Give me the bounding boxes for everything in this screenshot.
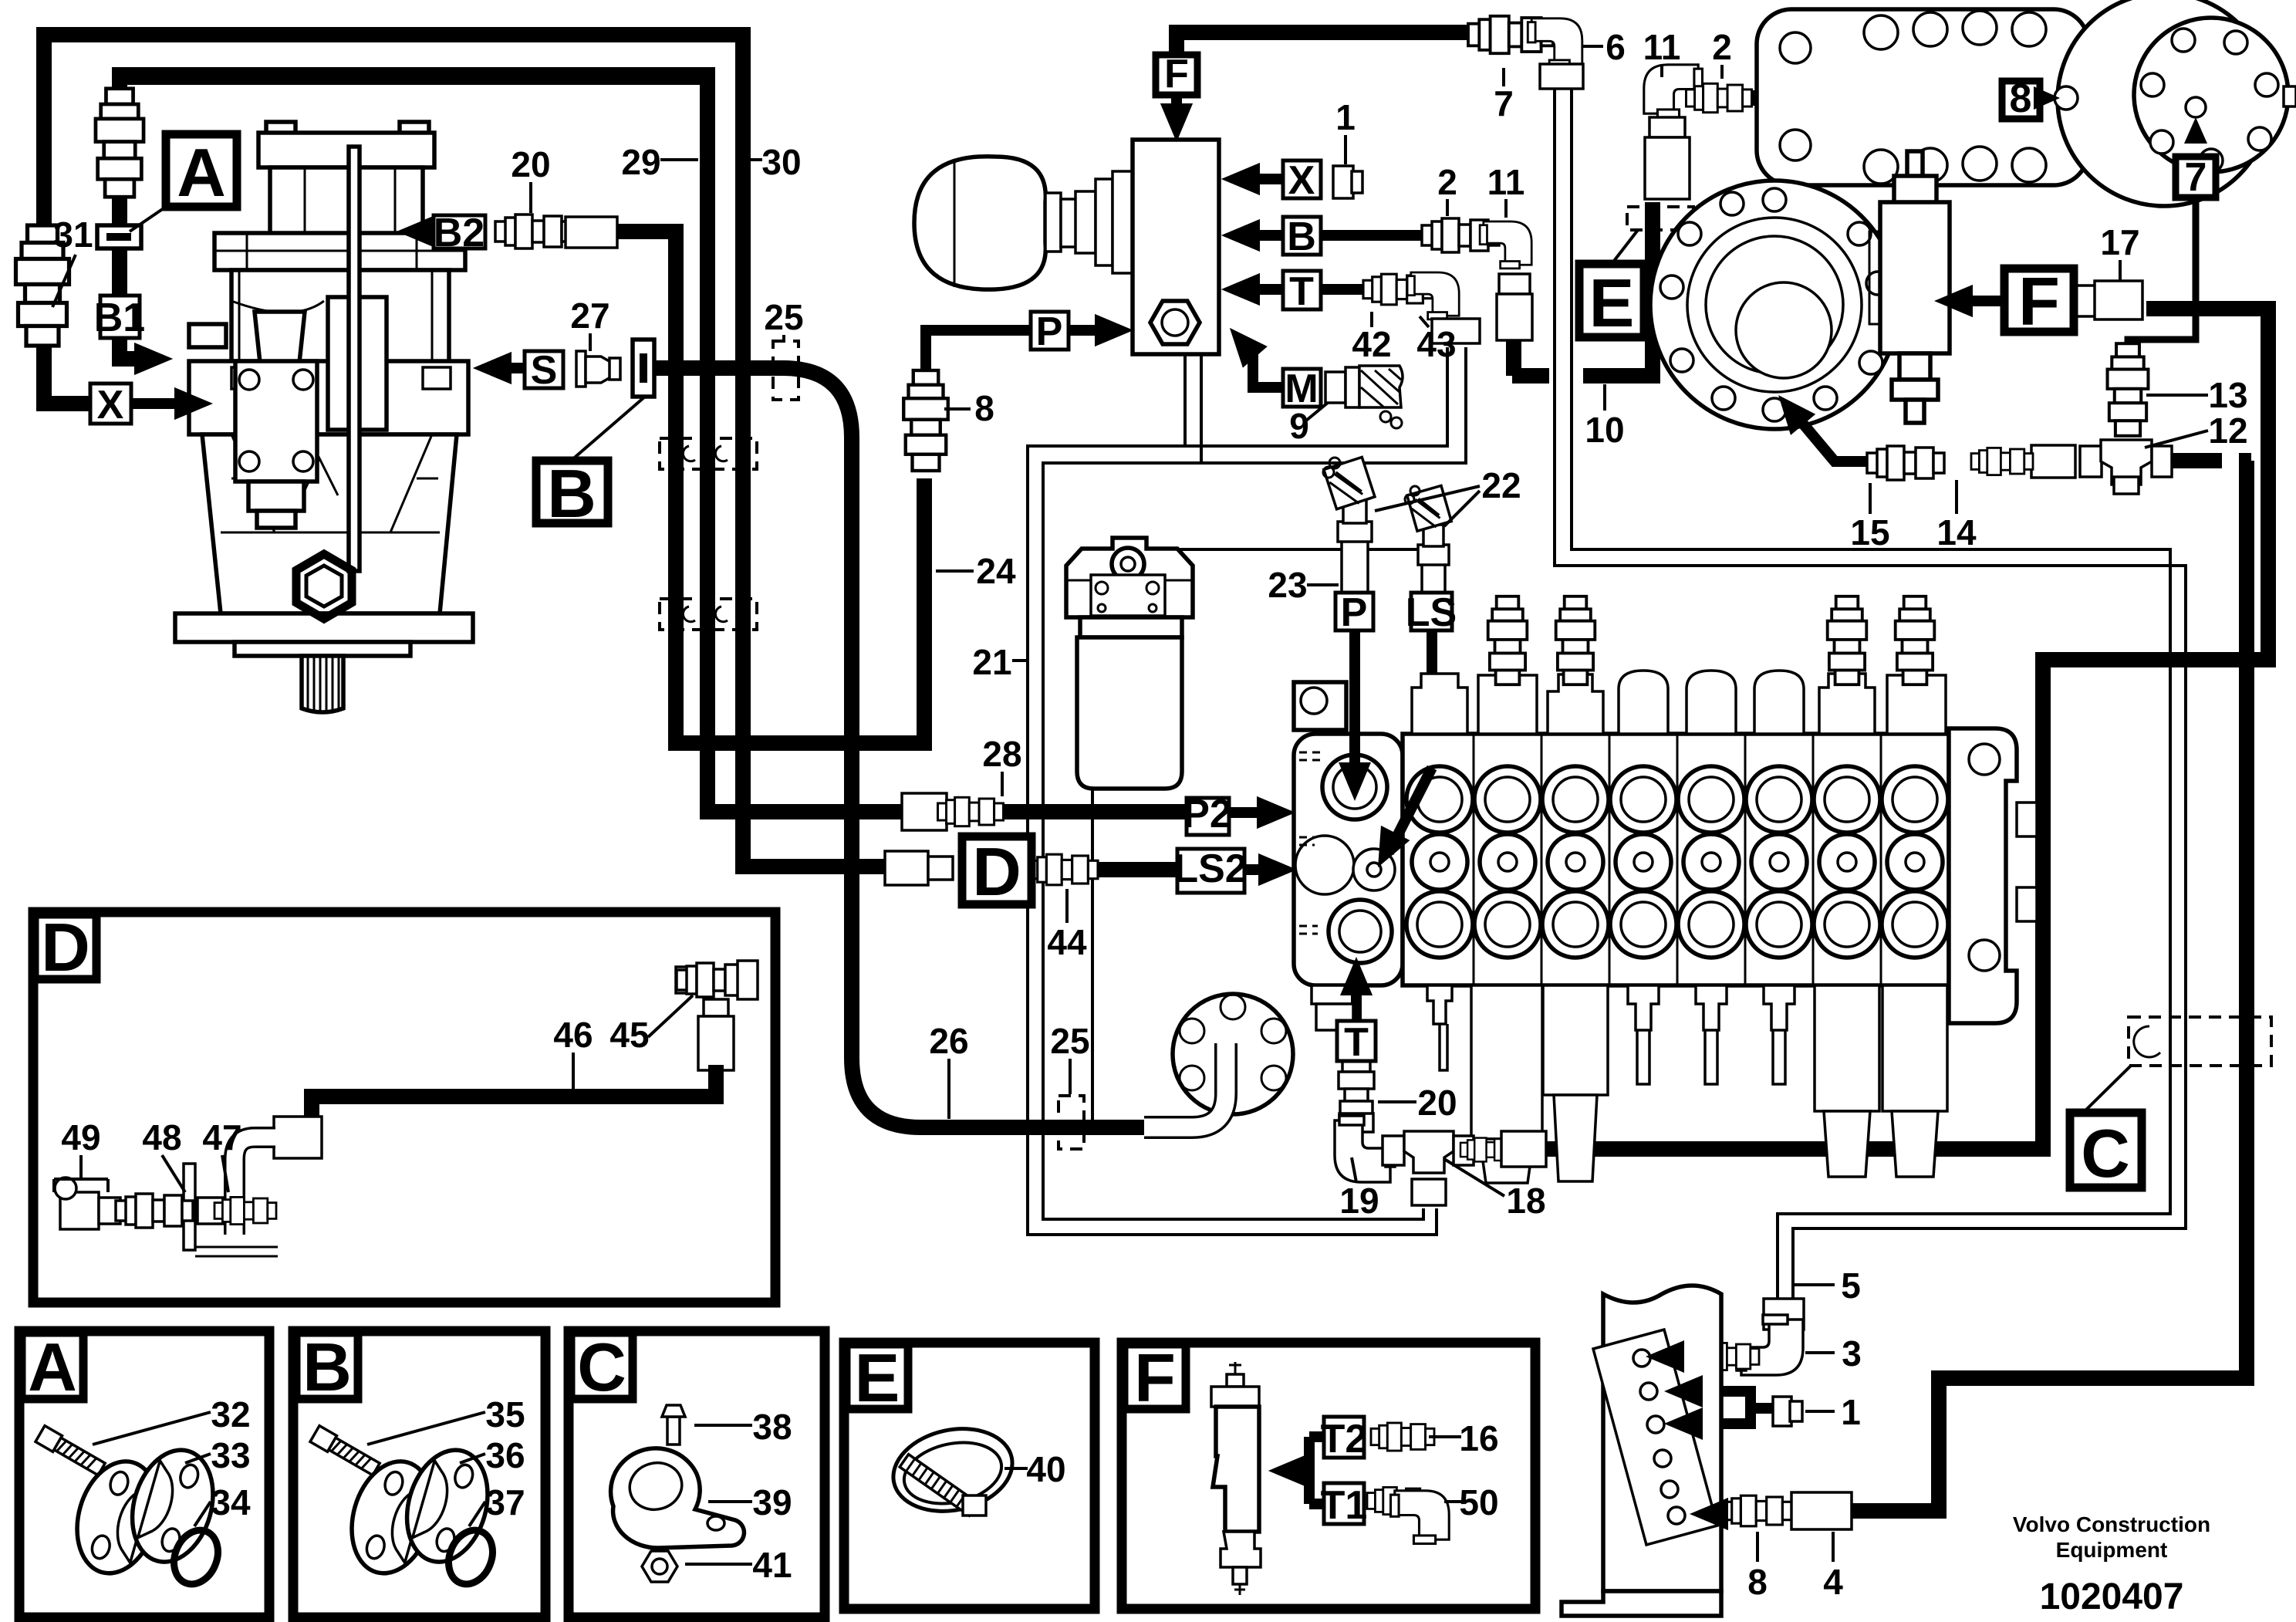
pump center cylinder and rod — [296, 147, 387, 619]
svg-text:35: 35 — [485, 1394, 525, 1434]
svg-text:M: M — [1285, 367, 1318, 411]
node arrow S into pump — [473, 352, 512, 384]
label box D thick — [962, 833, 1032, 910]
fitting 8b bottom right — [1723, 1495, 1792, 1526]
node arrow B1 into pump — [134, 343, 173, 375]
label 29 — [621, 142, 698, 182]
elbow 11 on B row — [1480, 221, 1532, 340]
label 7 top — [1494, 68, 1514, 123]
svg-text:T1: T1 — [1321, 1483, 1368, 1528]
node arrow P2 into inlet — [1257, 796, 1295, 829]
svg-text:7: 7 — [1494, 83, 1514, 123]
label box T valve — [1337, 1020, 1376, 1065]
svg-text:LS: LS — [1406, 590, 1457, 635]
label box P valve — [1335, 590, 1373, 635]
svg-text:7: 7 — [2185, 155, 2207, 200]
label 42 43 — [1352, 312, 1456, 364]
hose 4 from tee 12 down right side to bracket — [1852, 461, 2251, 1511]
svg-text:48: 48 — [142, 1117, 181, 1157]
fitting 3 elbow bottom right — [1697, 1299, 1804, 1375]
valve section circles — [1406, 766, 1948, 958]
svg-text:F: F — [1134, 1340, 1176, 1416]
svg-text:32: 32 — [211, 1394, 250, 1434]
dashed clamp E on hose 10 — [1627, 207, 1693, 230]
svg-text:15: 15 — [1850, 512, 1889, 552]
fitting 14 — [1971, 445, 2075, 478]
hose B2 to fitting 8 P-line — [617, 231, 924, 743]
label box S — [525, 348, 563, 393]
svg-text:E: E — [1589, 265, 1635, 341]
svg-text:B1: B1 — [94, 296, 145, 340]
label box A thick — [130, 134, 237, 231]
suction J pipe — [1144, 1043, 1226, 1127]
hose P2 line — [991, 804, 1187, 819]
fitting 1 right of X — [1333, 166, 1362, 198]
test couplers 22-23 above P LS — [1323, 457, 1452, 610]
svg-text:C: C — [2081, 1115, 2130, 1191]
fitting 27 on S line — [576, 351, 620, 387]
fitting 7 on top line — [1468, 16, 1553, 53]
svg-text:C: C — [577, 1329, 626, 1405]
label box P brake valve — [1031, 309, 1069, 354]
svg-text:19: 19 — [1339, 1181, 1379, 1221]
flange pair in box B — [310, 1426, 501, 1591]
wire F box to brake valve on motor — [1961, 296, 2004, 306]
valve top caps — [1412, 596, 1946, 734]
svg-text:47: 47 — [202, 1117, 241, 1157]
svg-text:13: 13 — [2208, 375, 2247, 415]
label 18 — [1444, 1159, 1546, 1221]
dashed clamp C on pipes right — [2129, 1017, 2271, 1066]
hose 29 from second line to fitting 28 — [120, 75, 907, 812]
svg-text:P: P — [1341, 590, 1368, 635]
svg-text:33: 33 — [211, 1435, 250, 1475]
label 44 — [1047, 889, 1087, 962]
svg-text:20: 20 — [1417, 1083, 1457, 1123]
svg-text:14: 14 — [1936, 512, 1977, 552]
svg-text:2: 2 — [1437, 162, 1457, 202]
flange pair in box A — [35, 1426, 226, 1591]
fitting 9 test point at M — [1325, 366, 1403, 428]
detail box F — [1122, 1340, 1535, 1609]
wire M-row elbow to brake valve — [1241, 340, 1283, 387]
label 12 — [2145, 411, 2248, 451]
svg-text:8: 8 — [1747, 1562, 1768, 1602]
label box X pump — [90, 383, 131, 427]
motor flange center right — [1650, 181, 1899, 429]
wire fitting 8 to P box — [926, 330, 1031, 384]
label 23 — [1268, 565, 1339, 605]
pipe 7 tube outer line — [1555, 77, 2186, 1298]
svg-text:P: P — [1036, 309, 1063, 354]
labels 46 45 — [553, 995, 693, 1094]
svg-text:36: 36 — [485, 1435, 525, 1475]
label box M brake valve — [1283, 367, 1321, 411]
svg-text:5: 5 — [1841, 1265, 1861, 1306]
label box F motor thick — [2004, 263, 2074, 340]
fitting 17 — [2076, 281, 2142, 319]
hose 8 line to motor port — [1748, 90, 2002, 106]
wire T up into inlet bottom port — [1351, 982, 1362, 1021]
svg-text:B: B — [302, 1329, 352, 1405]
detail box E — [844, 1340, 1095, 1609]
wire thin parallel to hose 29 — [127, 82, 702, 85]
svg-text:T2: T2 — [1321, 1417, 1368, 1461]
elbow 43 on T row — [1407, 272, 1480, 343]
fitting 13 — [2108, 343, 2149, 436]
labels 32 33 34 — [93, 1394, 251, 1526]
svg-text:4: 4 — [1823, 1562, 1843, 1602]
svg-text:1: 1 — [1841, 1392, 1861, 1432]
fitting 8 stack on P line — [903, 370, 948, 471]
hose LS2 line — [1092, 862, 1177, 877]
clamp A symbol — [97, 225, 141, 248]
label box T2 — [1321, 1417, 1368, 1461]
label 11 B row — [1487, 162, 1525, 218]
svg-text:F: F — [1164, 52, 1189, 96]
svg-text:31: 31 — [53, 215, 93, 255]
svg-text:18: 18 — [1506, 1181, 1545, 1221]
clamp clip in box C — [611, 1405, 745, 1582]
label box B brake valve — [1283, 215, 1321, 259]
valve stack on pump left — [235, 312, 317, 528]
label 25 on S line — [764, 297, 803, 341]
hose 10 under E clamp — [1583, 202, 1653, 376]
pipe 7 tube inner line — [1572, 77, 2170, 1298]
cable tie in box E — [886, 1418, 1020, 1522]
wire T1 T2 branch in box F — [1305, 1437, 1324, 1504]
label box B thick — [536, 397, 645, 532]
fitting 1b bottom right — [1773, 1397, 1802, 1426]
svg-text:10: 10 — [1585, 410, 1624, 450]
elbow 50 in box F — [1367, 1487, 1449, 1543]
dashed clamp bracket upper on hoses 29-30 — [660, 438, 757, 469]
svg-text:9: 9 — [1289, 406, 1309, 446]
accumulator adapter block — [1075, 171, 1133, 273]
svg-text:T: T — [1344, 1020, 1369, 1065]
wire X-box to pump — [131, 398, 185, 409]
svg-text:26: 26 — [929, 1021, 968, 1061]
node arrow P into valve — [1095, 314, 1133, 346]
fitting 44s on LS2 line left — [885, 851, 953, 885]
fitting 28 on P2 line — [902, 793, 1004, 830]
svg-text:D: D — [41, 909, 90, 985]
svg-text:X: X — [1288, 158, 1315, 203]
label 3 — [1805, 1333, 1862, 1374]
D detail box contents: tee 45 — [676, 961, 758, 1070]
fitting 44 union — [1028, 854, 1098, 885]
label 15 — [1850, 483, 1889, 552]
svg-text:A: A — [177, 134, 226, 211]
svg-text:16: 16 — [1459, 1418, 1498, 1458]
label box T brake valve — [1283, 269, 1321, 314]
svg-text:22: 22 — [1481, 465, 1521, 505]
svg-text:24: 24 — [976, 551, 1016, 591]
node arrow X into pump — [174, 387, 213, 420]
hose 46 in D box — [312, 1065, 716, 1133]
hose T to tee18 to F fitting 17 — [1532, 309, 2268, 1149]
label 21 — [972, 642, 1028, 682]
label 19 — [1339, 1157, 1379, 1221]
svg-text:8: 8 — [974, 388, 994, 428]
label box 7 thick — [2176, 155, 2216, 200]
label 31 — [52, 215, 93, 307]
wire 7 line from motor to fitting 13 — [2128, 136, 2196, 363]
svg-text:41: 41 — [752, 1545, 792, 1585]
label box LS valve — [1406, 590, 1457, 635]
label 28 — [982, 734, 1021, 796]
label 16 — [1429, 1418, 1499, 1458]
node arrow B2 into pump — [397, 215, 435, 248]
fitting 4 sleeve bottom right — [1791, 1492, 1852, 1529]
fitting 42 on T row — [1363, 274, 1433, 305]
svg-text:F: F — [2018, 263, 2060, 340]
wire B-row brake valve to fittings — [1244, 230, 1431, 241]
svg-text:1020407: 1020407 — [2040, 1576, 2184, 1617]
label 11 top right — [1643, 27, 1681, 77]
fitting 20b under T — [1339, 1049, 1374, 1130]
fitting 15 — [1867, 446, 1944, 480]
svg-text:12: 12 — [2208, 411, 2247, 451]
detail box A — [19, 1329, 269, 1617]
valve bottom solenoids — [1427, 985, 1947, 1183]
dashed clamp 25 on S line — [773, 341, 799, 400]
bottom right bracket — [1562, 1286, 1721, 1616]
control valve inlet section — [1294, 682, 1403, 1030]
svg-text:A: A — [28, 1329, 77, 1405]
label box B2 — [434, 211, 485, 255]
svg-text:20: 20 — [511, 144, 550, 184]
wire fitting 1 bracket lines — [1690, 1391, 1773, 1424]
pipe 21 frame line outer — [1028, 347, 1447, 1235]
svg-text:49: 49 — [61, 1117, 100, 1157]
detail box B — [293, 1329, 545, 1617]
svg-text:25: 25 — [1050, 1021, 1089, 1061]
label 10 — [1585, 384, 1624, 450]
label 8 bottom right — [1747, 1532, 1768, 1602]
svg-text:B: B — [547, 455, 596, 532]
fitting 16 in box F — [1371, 1423, 1434, 1451]
svg-text:LS2: LS2 — [1173, 846, 1247, 891]
wire P coupler down to inlet port — [1349, 630, 1360, 772]
svg-text:3: 3 — [1842, 1333, 1862, 1374]
labels 49 48 47 — [54, 1117, 242, 1192]
svg-text:8: 8 — [2010, 76, 2032, 121]
label box T1 — [1321, 1483, 1368, 1528]
svg-text:40: 40 — [1026, 1449, 1065, 1489]
label 22 — [1375, 465, 1521, 526]
label 40 — [1004, 1449, 1066, 1489]
clamp B symbol — [633, 340, 654, 397]
brake valve on motor flange — [1869, 151, 1950, 423]
svg-text:17: 17 — [2100, 222, 2139, 262]
svg-text:D: D — [972, 833, 1021, 910]
label box 8 thick — [2002, 76, 2040, 121]
svg-text:30: 30 — [761, 142, 801, 182]
svg-text:27: 27 — [570, 296, 609, 336]
svg-text:E: E — [855, 1340, 900, 1416]
wire P box to valve — [1069, 325, 1107, 336]
svg-text:23: 23 — [1268, 565, 1307, 605]
pump assembly top-left — [175, 122, 473, 712]
wire B2-box to pump — [420, 226, 434, 237]
labels 35 36 37 — [367, 1394, 525, 1526]
svg-text:11: 11 — [1487, 162, 1525, 202]
svg-text:B: B — [1287, 215, 1316, 259]
dashed clamp 25 on hose 26 — [1059, 1096, 1084, 1149]
hose F-line top feed — [1177, 32, 1477, 95]
svg-text:45: 45 — [609, 1015, 649, 1055]
brake charge valve block — [1133, 140, 1219, 354]
elbow 6 top — [1528, 19, 1583, 89]
pipe 21 filter drop line — [1091, 789, 1094, 1128]
quick coupler 49 chain in D box — [55, 1178, 276, 1229]
wire X-row arrow at brake valve — [1244, 174, 1283, 184]
label 17 — [2100, 222, 2139, 281]
label 27 — [570, 296, 609, 351]
bracket 48 in D box — [184, 1164, 278, 1256]
hose 14-15 to motor arrow — [1795, 414, 1867, 461]
svg-text:42: 42 — [1352, 324, 1391, 364]
elbow pipe in D box — [235, 1137, 275, 1235]
labels 38 39 41 — [685, 1407, 792, 1585]
label 13 — [2146, 375, 2248, 415]
elbow 11 top right — [1644, 65, 1703, 199]
svg-text:6: 6 — [1606, 27, 1626, 67]
wire LS coupler diagonal to port — [1389, 630, 1432, 853]
valve bank body — [1403, 734, 1949, 985]
dashed clamp bracket lower on hoses 29-30 — [660, 599, 757, 630]
label 30 — [747, 142, 802, 182]
label 5 — [1795, 1265, 1861, 1306]
suction flange — [1173, 994, 1293, 1114]
motor mounting plate top right — [1757, 9, 2088, 185]
svg-text:25: 25 — [764, 297, 803, 337]
label box E thick — [1579, 230, 1644, 341]
label 2 top right — [1712, 27, 1732, 79]
svg-text:1: 1 — [1335, 97, 1356, 137]
svg-text:P2: P2 — [1183, 792, 1232, 836]
motor drum circles top right — [2055, 0, 2296, 206]
wire 18 arrow to bracket — [1714, 1505, 1730, 1516]
svg-text:37: 37 — [485, 1482, 525, 1522]
detail box D — [33, 909, 775, 1303]
label 26 — [929, 1021, 968, 1119]
svg-text:2: 2 — [1712, 27, 1732, 67]
svg-text:43: 43 — [1416, 324, 1456, 364]
valve end bracket right — [1949, 728, 2037, 1023]
hose stub from elbow 11 B-row — [1512, 336, 1549, 376]
label 24 — [936, 551, 1016, 591]
svg-text:Equipment: Equipment — [2056, 1538, 2168, 1562]
wire elbow 3 arrow to bracket hole — [1676, 1351, 1735, 1362]
svg-text:Volvo Construction: Volvo Construction — [2013, 1512, 2210, 1536]
svg-text:34: 34 — [211, 1482, 251, 1522]
label box B1 — [94, 296, 145, 340]
label box F top — [1156, 52, 1197, 96]
tee 18 — [1383, 1131, 1546, 1205]
detail box C — [569, 1329, 825, 1617]
svg-text:44: 44 — [1047, 922, 1087, 962]
label 1 top — [1335, 97, 1356, 164]
svg-text:29: 29 — [621, 142, 660, 182]
hose 30 from top line to LS2 fitting — [44, 35, 891, 867]
label 4 bottom right — [1823, 1532, 1843, 1602]
fitting 31 stack — [16, 225, 69, 346]
svg-text:46: 46 — [553, 1015, 593, 1055]
fitting 2 top right — [1687, 83, 1752, 112]
accumulator balloon — [914, 157, 1076, 289]
svg-text:11: 11 — [1643, 27, 1681, 67]
label 9 — [1289, 406, 1309, 446]
tee 12 — [2080, 440, 2172, 494]
fitting sleeve 47 area in D box — [274, 1117, 322, 1158]
pipe 21 frame line inner — [1043, 347, 1466, 1219]
label 8 fitting P line — [944, 388, 994, 428]
svg-text:39: 39 — [752, 1482, 792, 1522]
elbow 19 — [1335, 1113, 1395, 1182]
label box C thick — [2070, 1066, 2142, 1191]
fitting 20 on B2 line — [495, 215, 572, 248]
svg-text:28: 28 — [982, 734, 1021, 774]
oil filter — [1066, 538, 1193, 789]
svg-text:X: X — [97, 383, 124, 427]
svg-text:T: T — [1289, 269, 1314, 314]
wire leader from label 9 — [1306, 395, 1337, 421]
label 1 bottom right — [1805, 1392, 1861, 1432]
label 14 — [1936, 480, 1977, 552]
svg-text:B2: B2 — [434, 211, 485, 255]
wire T-row brake valve to fittings — [1244, 284, 1373, 295]
label box X brake valve — [1283, 158, 1321, 203]
hose 26 from S port to suction flange — [654, 368, 1144, 1127]
label box P2 — [1183, 792, 1232, 836]
label 2 B row — [1437, 162, 1457, 216]
label 50 — [1444, 1482, 1499, 1522]
fitting on B1 line top — [96, 89, 143, 197]
fitting sleeve after 20 — [566, 217, 617, 248]
node arrow F down into brake valve — [1171, 95, 1182, 117]
node arrow LS2 into inlet — [1258, 853, 1297, 886]
svg-text:21: 21 — [972, 642, 1011, 682]
fitting 2 on B row — [1422, 218, 1499, 252]
label 20 under T — [1378, 1083, 1457, 1123]
label 20 — [511, 144, 550, 213]
svg-text:50: 50 — [1459, 1482, 1498, 1522]
volvo text — [2013, 1512, 2210, 1617]
pipe from brake valve to elbow 43 — [1173, 355, 1437, 549]
svg-text:38: 38 — [752, 1407, 792, 1447]
wire S-box to pump — [500, 363, 525, 373]
brake valve in box F — [1211, 1362, 1261, 1595]
label 6 — [1582, 27, 1626, 67]
label box LS2 — [1173, 846, 1247, 893]
label 25 on hose 26 — [1050, 1021, 1089, 1094]
svg-text:S: S — [531, 348, 558, 393]
